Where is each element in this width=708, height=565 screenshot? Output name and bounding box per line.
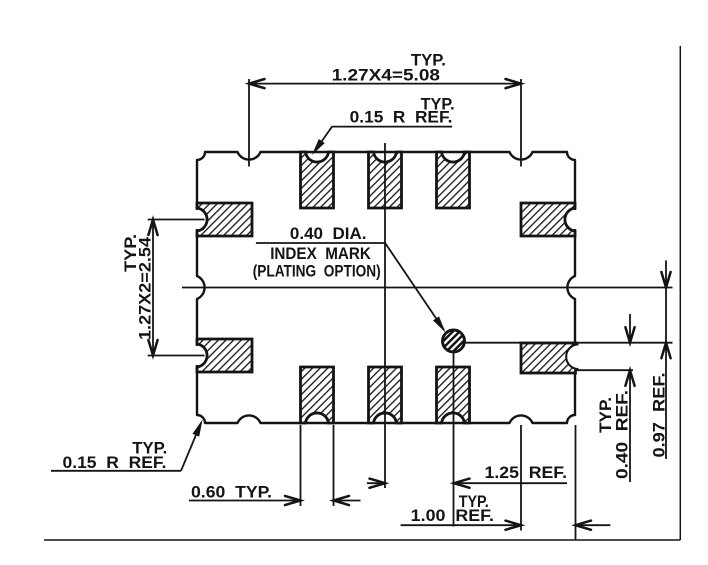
svg-text:(PLATING OPTION): (PLATING OPTION) — [253, 262, 381, 281]
svg-text:0.60 TYP.: 0.60 TYP. — [191, 483, 272, 502]
svg-text:1.27X4=5.08: 1.27X4=5.08 — [332, 66, 440, 85]
svg-text:1.00 REF.: 1.00 REF. — [411, 506, 494, 525]
svg-text:0.40 DIA.: 0.40 DIA. — [290, 224, 367, 243]
svg-text:INDEX MARK: INDEX MARK — [270, 244, 371, 263]
svg-text:0.97 REF.: 0.97 REF. — [650, 373, 669, 458]
svg-text:0.15 R REF.: 0.15 R REF. — [350, 108, 453, 127]
svg-text:1.27X2=2.54: 1.27X2=2.54 — [136, 236, 155, 340]
svg-text:0.40 REF.: 0.40 REF. — [613, 390, 632, 479]
svg-text:1.25 REF.: 1.25 REF. — [485, 463, 568, 482]
svg-text:0.15 R REF.: 0.15 R REF. — [63, 453, 167, 472]
